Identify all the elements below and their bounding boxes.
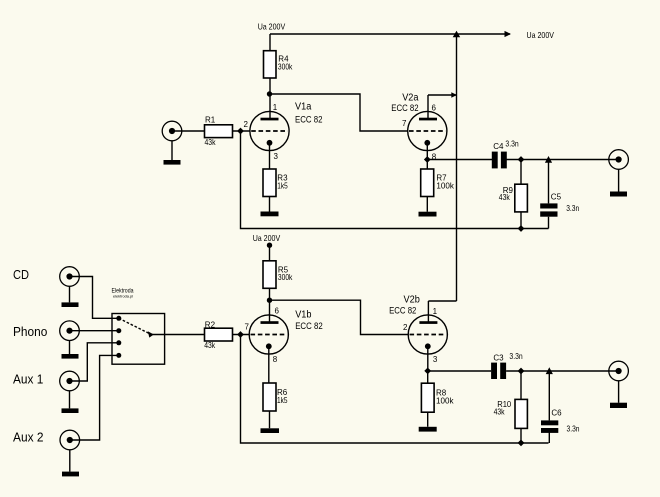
svg-text:3.3n: 3.3n [505, 140, 518, 149]
svg-text:1: 1 [273, 103, 278, 112]
svg-text:ECC 82: ECC 82 [391, 103, 418, 113]
svg-text:R2: R2 [205, 320, 216, 329]
svg-text:6: 6 [432, 103, 437, 112]
svg-text:CD: CD [13, 267, 29, 282]
svg-text:1k5: 1k5 [277, 181, 288, 190]
svg-text:C3: C3 [493, 353, 504, 362]
svg-text:300k: 300k [278, 273, 293, 282]
svg-text:V2a: V2a [402, 92, 419, 103]
svg-text:43k: 43k [205, 138, 217, 147]
svg-text:Aux 1: Aux 1 [13, 372, 43, 387]
svg-text:3.3n: 3.3n [567, 425, 580, 434]
svg-text:Aux 2: Aux 2 [13, 430, 44, 445]
svg-text:1k5: 1k5 [277, 396, 288, 405]
svg-text:7: 7 [402, 119, 407, 128]
svg-text:V2b: V2b [404, 294, 421, 305]
svg-text:elektroda.pl: elektroda.pl [113, 294, 133, 299]
svg-text:3: 3 [274, 152, 279, 161]
svg-text:Phono: Phono [13, 324, 47, 339]
svg-text:2: 2 [244, 120, 249, 129]
svg-text:100k: 100k [436, 397, 454, 406]
svg-text:Ua 200V: Ua 200V [527, 30, 555, 40]
svg-text:3.3n: 3.3n [566, 204, 579, 213]
svg-text:1: 1 [433, 307, 438, 316]
svg-text:8: 8 [432, 152, 437, 161]
svg-text:C6: C6 [551, 408, 562, 417]
svg-text:V1a: V1a [295, 101, 312, 112]
svg-text:6: 6 [275, 307, 280, 316]
svg-text:2: 2 [403, 323, 408, 332]
svg-text:C5: C5 [551, 193, 562, 202]
svg-text:ECC 82: ECC 82 [295, 114, 323, 124]
svg-text:R1: R1 [205, 116, 216, 125]
svg-text:3.3n: 3.3n [509, 352, 522, 361]
svg-text:ECC 82: ECC 82 [295, 321, 323, 331]
svg-text:C4: C4 [493, 142, 504, 151]
svg-text:7: 7 [245, 323, 250, 332]
svg-text:43k: 43k [494, 408, 506, 417]
svg-text:43k: 43k [204, 341, 216, 350]
svg-text:Ua 200V: Ua 200V [258, 22, 286, 32]
svg-text:43k: 43k [499, 193, 511, 202]
svg-text:3: 3 [433, 355, 438, 364]
svg-text:8: 8 [273, 355, 278, 364]
svg-text:100k: 100k [436, 181, 454, 190]
svg-text:ECC 82: ECC 82 [389, 305, 416, 315]
svg-text:Ua 200V: Ua 200V [253, 233, 281, 243]
svg-text:300k: 300k [278, 62, 293, 71]
svg-text:V1b: V1b [295, 310, 312, 321]
